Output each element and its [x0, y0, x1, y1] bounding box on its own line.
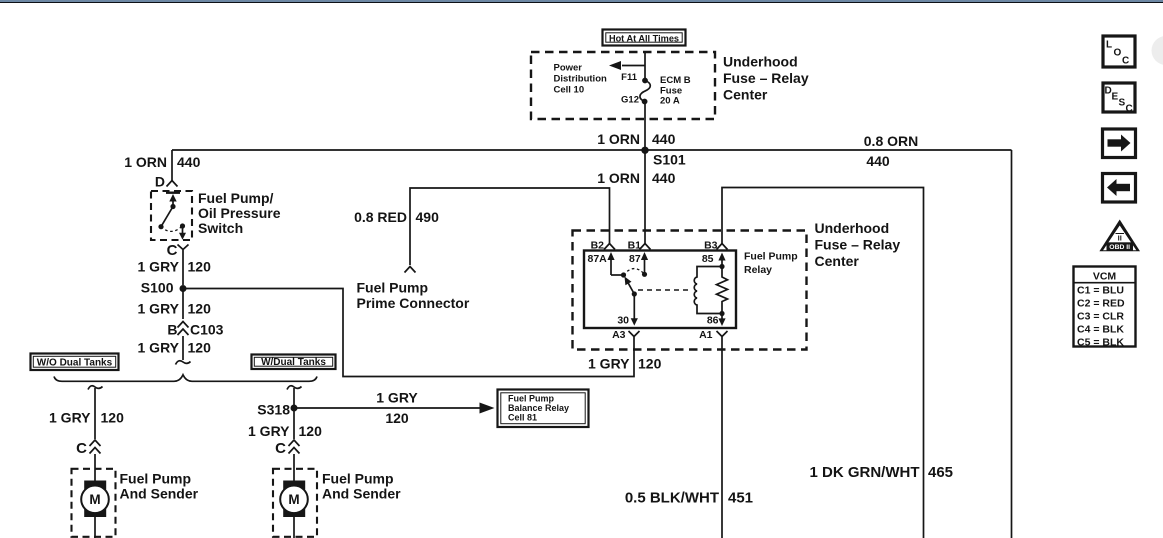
svg-text:L: L: [1106, 40, 1112, 51]
svg-text:1 ORN: 1 ORN: [597, 170, 640, 186]
svg-text:C: C: [76, 440, 87, 457]
svg-text:B2: B2: [591, 240, 605, 252]
svg-text:30: 30: [617, 315, 629, 327]
svg-text:Hot At All Times: Hot At All Times: [609, 34, 679, 44]
svg-text:Oil Pressure: Oil Pressure: [198, 205, 281, 221]
svg-text:S: S: [1119, 98, 1126, 109]
svg-text:A3: A3: [612, 329, 626, 341]
svg-text:E: E: [1112, 92, 1119, 103]
svg-text:C4 = BLK: C4 = BLK: [1077, 323, 1124, 335]
svg-text:1 GRY: 1 GRY: [138, 301, 180, 317]
svg-text:1 GRY: 1 GRY: [49, 410, 91, 426]
svg-text:C3 = CLR: C3 = CLR: [1077, 310, 1124, 322]
svg-text:Underhood: Underhood: [723, 54, 798, 70]
svg-text:ECM B: ECM B: [660, 75, 691, 86]
svg-text:Fuel Pump: Fuel Pump: [508, 393, 555, 403]
svg-text:Underhood: Underhood: [815, 220, 890, 236]
svg-text:20 A: 20 A: [660, 96, 680, 107]
svg-text:M: M: [89, 492, 100, 507]
svg-text:120: 120: [638, 356, 662, 372]
svg-text:440: 440: [652, 131, 676, 147]
svg-text:1 GRY: 1 GRY: [248, 423, 290, 439]
svg-text:440: 440: [177, 154, 201, 170]
svg-text:440: 440: [652, 170, 676, 186]
svg-text:S318: S318: [257, 402, 290, 418]
svg-text:1 ORN: 1 ORN: [124, 154, 167, 170]
svg-text:D: D: [155, 174, 165, 190]
svg-text:85: 85: [702, 253, 714, 265]
svg-text:Power: Power: [554, 63, 583, 74]
svg-text:C2 = RED: C2 = RED: [1077, 297, 1125, 309]
svg-text:120: 120: [188, 301, 212, 317]
svg-text:87: 87: [629, 253, 641, 265]
svg-text:1 GRY: 1 GRY: [588, 356, 630, 372]
svg-text:C: C: [275, 440, 286, 457]
svg-text:1 GRY: 1 GRY: [138, 340, 180, 356]
svg-text:Center: Center: [815, 253, 860, 269]
svg-text:C: C: [1126, 104, 1133, 115]
svg-text:0.8 ORN: 0.8 ORN: [864, 133, 918, 149]
svg-text:Fuel Pump/: Fuel Pump/: [198, 190, 274, 206]
svg-text:465: 465: [928, 464, 953, 481]
svg-text:Fuel Pump: Fuel Pump: [120, 471, 192, 487]
svg-text:120: 120: [101, 410, 125, 426]
svg-text:1 ORN: 1 ORN: [597, 131, 640, 147]
svg-text:C: C: [167, 242, 178, 259]
svg-text:1 GRY: 1 GRY: [376, 390, 418, 406]
svg-text:86: 86: [707, 315, 719, 327]
svg-text:A1: A1: [699, 329, 713, 341]
svg-text:W/O Dual Tanks: W/O Dual Tanks: [37, 357, 113, 368]
svg-text:O: O: [1114, 48, 1122, 59]
svg-text:451: 451: [728, 490, 753, 507]
svg-text:Prime Connector: Prime Connector: [357, 295, 470, 311]
svg-text:440: 440: [866, 153, 890, 169]
svg-text:C5 = BLK: C5 = BLK: [1077, 336, 1124, 348]
svg-text:M: M: [288, 492, 299, 507]
svg-text:And Sender: And Sender: [322, 486, 401, 502]
svg-text:C1 = BLU: C1 = BLU: [1077, 284, 1124, 296]
svg-text:Switch: Switch: [198, 220, 243, 236]
svg-text:Relay: Relay: [744, 264, 772, 276]
svg-text:0.8 RED: 0.8 RED: [354, 209, 407, 225]
svg-text:C: C: [1122, 56, 1129, 67]
svg-text:120: 120: [299, 423, 323, 439]
svg-text:87A: 87A: [588, 253, 608, 265]
svg-text:And Sender: And Sender: [120, 486, 199, 502]
svg-text:B1: B1: [628, 240, 642, 252]
svg-text:Cell 81: Cell 81: [508, 413, 537, 423]
svg-text:W/Dual Tanks: W/Dual Tanks: [261, 357, 326, 368]
svg-text:C103: C103: [190, 322, 224, 338]
svg-text:Fuel Pump: Fuel Pump: [357, 280, 429, 296]
svg-text:1 DK GRN/WHT: 1 DK GRN/WHT: [810, 464, 920, 481]
svg-text:120: 120: [188, 259, 212, 275]
svg-text:Center: Center: [723, 87, 768, 103]
svg-text:S100: S100: [141, 280, 174, 296]
svg-text:Fuel Pump: Fuel Pump: [322, 471, 394, 487]
svg-text:120: 120: [385, 410, 409, 426]
svg-text:F11: F11: [621, 72, 638, 83]
svg-text:Distribution: Distribution: [554, 74, 607, 85]
svg-text:490: 490: [416, 209, 440, 225]
svg-text:B: B: [167, 322, 177, 338]
svg-text:1 GRY: 1 GRY: [138, 259, 180, 275]
svg-text:Fuel Pump: Fuel Pump: [744, 251, 798, 263]
svg-text:OBD II: OBD II: [1109, 244, 1130, 251]
svg-text:Fuse – Relay: Fuse – Relay: [723, 70, 809, 86]
svg-text:G12: G12: [621, 95, 639, 106]
svg-text:Cell 10: Cell 10: [554, 85, 585, 96]
svg-text:120: 120: [188, 340, 212, 356]
svg-text:Fuse – Relay: Fuse – Relay: [815, 237, 901, 253]
svg-text:B3: B3: [704, 240, 718, 252]
svg-text:VCM: VCM: [1093, 270, 1117, 282]
svg-text:II: II: [1118, 234, 1122, 243]
svg-text:Balance Relay: Balance Relay: [508, 403, 569, 413]
svg-text:S101: S101: [653, 152, 686, 168]
svg-text:0.5 BLK/WHT: 0.5 BLK/WHT: [625, 490, 719, 507]
